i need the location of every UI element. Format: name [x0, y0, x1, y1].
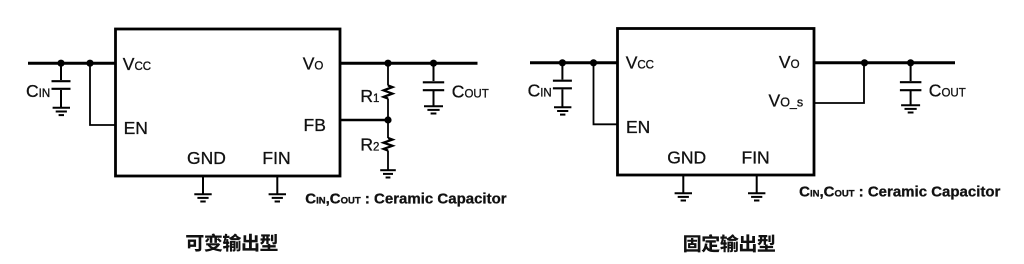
wire: rail to COUT — [433, 63, 435, 81]
junction node: CIN tap — [57, 60, 64, 67]
svg-text:EN: EN — [124, 118, 148, 138]
ground: FIN pin (left) — [269, 194, 286, 201]
capacitor COUT (left) — [423, 82, 444, 90]
svg-text:FIN: FIN — [262, 148, 290, 168]
junction node: EN tap — [86, 60, 93, 67]
wire: R2 to ground — [387, 151, 389, 170]
junction node: COUT tap — [430, 60, 437, 67]
capacitor CIN (right) — [553, 81, 572, 89]
caption char 输 — [720, 234, 738, 252]
caption char 变 — [205, 233, 223, 251]
wire: rail to R1 — [387, 63, 389, 85]
wire: EN branch (right) — [594, 63, 618, 125]
wire: VO output rail (left circuit) — [340, 62, 478, 65]
ground: GND pin (left) — [194, 194, 211, 201]
caption char 可 — [186, 235, 203, 252]
ground: below COUT (right) — [901, 105, 920, 112]
regulator IC U2 (right) — [618, 29, 815, 176]
wire: CIN to ground — [60, 90, 62, 107]
caption char 型 — [260, 234, 278, 251]
resistor R2 — [384, 138, 393, 151]
wire: CIN to ground (right) — [561, 90, 563, 107]
resistor R1 — [384, 86, 393, 99]
caption char 固 — [684, 235, 700, 252]
wire: CIN to rail — [60, 63, 62, 80]
wire: FB pin to divider — [340, 119, 388, 121]
caption char 出 — [243, 234, 259, 252]
wire: FB node to R2 — [387, 120, 389, 138]
svg-text:FB: FB — [304, 115, 326, 135]
wire: CIN to rail (right) — [561, 63, 563, 80]
svg-text:GND: GND — [187, 148, 226, 168]
caption char 型 — [757, 235, 775, 252]
wire: R1 to FB node — [387, 99, 389, 121]
wire: COUT to ground (left) — [433, 91, 435, 106]
wire: GND pin lead (left) — [202, 176, 204, 194]
caption char 定 — [702, 234, 720, 252]
wire: GND pin lead (right) — [682, 175, 684, 193]
svg-text:EN: EN — [626, 117, 650, 137]
capacitor CIN — [52, 81, 71, 89]
ground: below R2 — [380, 170, 396, 177]
wire: COUT to ground (right) — [910, 91, 912, 105]
svg-text:CIN,COUT : Ceramic Capacitor: CIN,COUT : Ceramic Capacitor — [799, 183, 1000, 200]
junction node: EN tap (right) — [590, 59, 597, 66]
ground: FIN pin (right) — [748, 193, 765, 200]
junction node: R1 tap — [384, 60, 391, 67]
wire: FIN pin lead (right) — [756, 175, 758, 193]
wire: rail to COUT (right) — [910, 63, 912, 81]
junction node: VO_S sense tap — [861, 59, 868, 66]
wire: VCC input rail (left circuit) — [28, 62, 116, 65]
caption char 输 — [223, 234, 241, 252]
caption char 出 — [740, 234, 756, 252]
ground: below CIN (right) — [554, 107, 571, 114]
junction node: COUT tap (right) — [907, 59, 914, 66]
wire: VCC input rail (right circuit) — [530, 61, 618, 64]
ground: GND pin (right) — [675, 193, 692, 200]
svg-text:CIN,COUT : Ceramic Capacitor: CIN,COUT : Ceramic Capacitor — [305, 191, 506, 208]
ground: below CIN — [53, 108, 70, 115]
wire: FIN pin lead (left) — [276, 176, 278, 194]
capacitor COUT (right) — [900, 82, 922, 90]
svg-text:FIN: FIN — [742, 148, 770, 168]
ground: below COUT (left) — [424, 106, 443, 113]
wire: VO output rail (right circuit) — [814, 61, 955, 64]
junction node: FB — [384, 116, 391, 123]
wire: VO_S sense feedback — [814, 63, 864, 103]
regulator IC U1 (left) — [116, 29, 341, 176]
svg-text:GND: GND — [667, 148, 706, 168]
wire: EN branch — [90, 63, 116, 125]
junction node: CIN tap (right) — [559, 59, 566, 66]
